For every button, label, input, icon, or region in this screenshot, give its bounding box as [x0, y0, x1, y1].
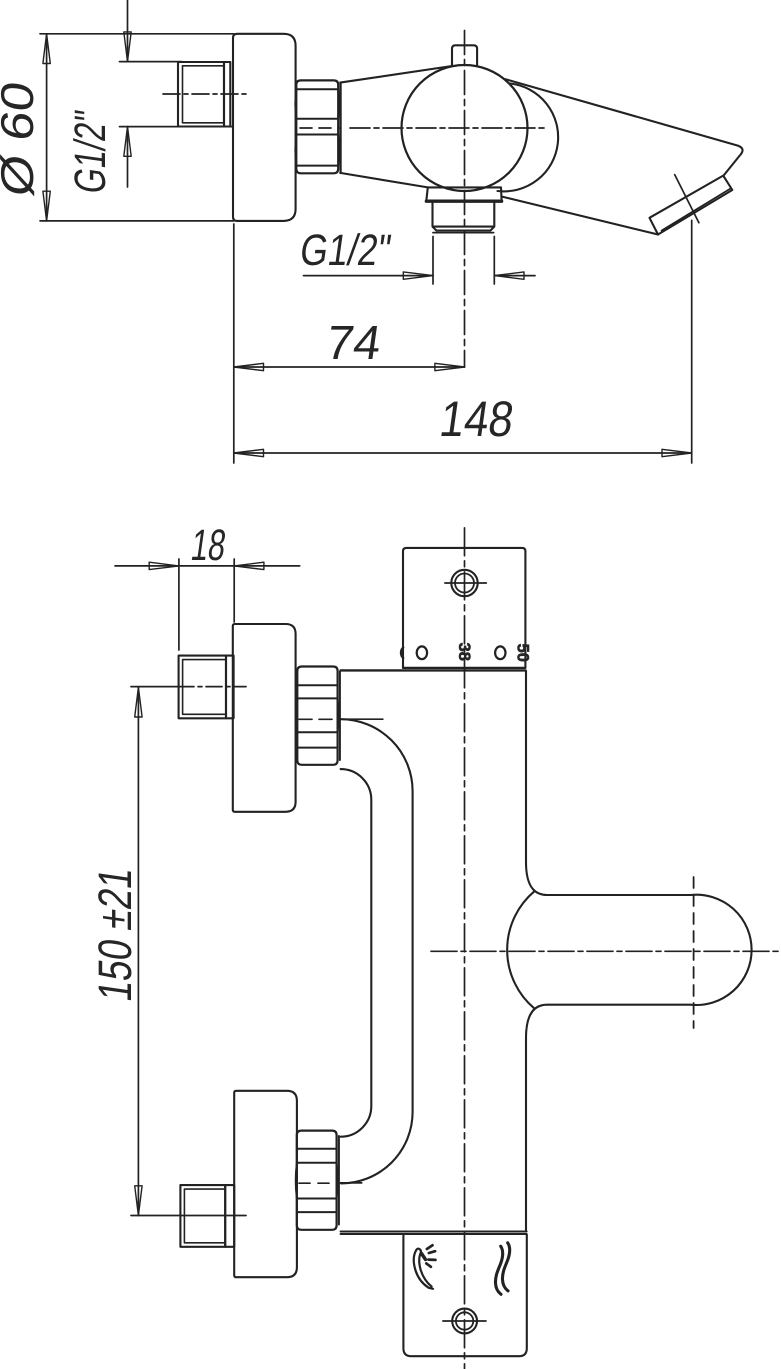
extension line G1/2 top [120, 61, 182, 63]
dimension line 18 [115, 565, 300, 567]
arrow 150 top [135, 687, 142, 717]
inlet fitting square (side view) [178, 62, 224, 127]
upper nut axis tick [341, 718, 383, 720]
svg-text:150 ±21: 150 ±21 [89, 864, 142, 1004]
hex nut band lines [296, 89, 338, 165]
extension line G1/2 outlet right [493, 237, 495, 285]
arrow Ø60 top [43, 34, 50, 64]
main vertical centerline [464, 528, 466, 1369]
valve cone top edge [340, 66, 452, 83]
upper nut facet bulges [296, 698, 339, 732]
svg-text:50: 50 [514, 644, 532, 662]
extension line 18 left [178, 559, 180, 650]
spout top edge [506, 79, 743, 175]
dimension line 150±21 [137, 687, 139, 1215]
handle screw inner circle [455, 574, 474, 593]
block screw outer circle [452, 1309, 477, 1334]
block screw inner circle [456, 1312, 473, 1329]
dimension line G1/2 vertical lower [127, 127, 129, 187]
centerline upper fitting axis [178, 686, 246, 688]
arrow 74 right [435, 363, 465, 370]
diverter block [403, 1235, 526, 1357]
control knob circle (side view) [402, 65, 528, 191]
extension line left (74/148) [233, 224, 235, 463]
fitting collar band [224, 62, 230, 127]
shower outlet flange [426, 187, 501, 200]
extension line 18 right [233, 559, 235, 622]
lower nut axis tick [340, 1182, 362, 1184]
dimension line 148 [234, 452, 692, 454]
bath steam icon wave 2 [502, 1243, 509, 1291]
arrow 18 right [234, 562, 264, 569]
svg-text:G1/2": G1/2" [297, 226, 394, 275]
knob skirt arc [507, 891, 534, 1008]
centerline valve axis horizontal [350, 127, 545, 129]
lower nut band lines [297, 1149, 337, 1212]
arrow G1/2 down [124, 32, 131, 62]
svg-text:38: 38 [455, 643, 473, 661]
body bottom edge double line [341, 1232, 527, 1235]
lower fitting collar band [225, 1185, 234, 1247]
knob hidden edge dashed [693, 877, 695, 1028]
wall escutcheon (side view) [233, 34, 296, 221]
connection hex nut (side view) [296, 80, 338, 173]
valve cone bottom edge [340, 173, 428, 188]
block screw cross line [443, 1320, 486, 1322]
lower nut axis dashes [299, 1182, 336, 1184]
arrow 150 bottom [135, 1186, 142, 1216]
extension line top (body top / Ø60) [40, 33, 234, 35]
valve axis dashes through nut [300, 127, 339, 129]
upper fitting collar band [226, 656, 234, 719]
svg-text:Ø 60: Ø 60 [0, 78, 43, 199]
centerline inlet fitting axis [163, 93, 248, 95]
shower outlet bottom edge [433, 232, 494, 234]
extension line G1/2 outlet left [432, 237, 434, 285]
upper inlet fitting square [179, 656, 226, 719]
knob axis centerline [431, 950, 781, 952]
extension line bottom (body bottom / Ø60) [40, 220, 234, 222]
arrow 148 right [662, 449, 692, 456]
pipe outer contour (S-union outer curves) [341, 769, 372, 1137]
aerator diagonal extension [675, 175, 699, 223]
extension line 150 upper [131, 686, 178, 688]
shower icon wand outer edge [414, 1251, 433, 1289]
lower fitting thread inner lines [184, 1189, 225, 1243]
spout wrap silhouette arc [498, 84, 559, 192]
aerator collar [650, 176, 733, 235]
shower icon wand inner edge [419, 1253, 431, 1287]
arrow 74 left [234, 363, 264, 370]
marking o left [417, 646, 427, 659]
aerator collar inner line [662, 188, 731, 230]
arrow G1/2 up [124, 127, 131, 157]
dimension line G1/2 vertical upper [127, 0, 129, 62]
centerline valve vertical [464, 31, 466, 368]
flange bottom thick line [426, 199, 501, 202]
shower icon head blob [422, 1254, 426, 1260]
inlet fitting thread inner lines [183, 66, 225, 123]
lower wall escutcheon [234, 1091, 297, 1277]
arrow G1/2 outlet right-pointing [403, 272, 433, 279]
shower outlet body [433, 203, 495, 231]
dimension line G1/2 outlet left part [304, 275, 434, 277]
arrow 148 left [234, 449, 264, 456]
dimension line Ø60 [46, 34, 48, 221]
extension line G1/2 bottom [120, 126, 234, 128]
temperature handle end cap [403, 548, 525, 668]
handle screw outer circle [451, 570, 477, 596]
body right edge with side knob neck [526, 671, 752, 1232]
arrow Ø60 bottom [43, 191, 50, 221]
upper fitting thread inner lines [183, 660, 226, 715]
upper nut washer band [339, 672, 341, 761]
shower icon wand top hook [416, 1249, 421, 1253]
body left contour (S-union inner curves) [341, 719, 413, 1183]
cone base edge [340, 83, 342, 173]
lower connection hex nut [297, 1131, 337, 1230]
hex nut facet bulges [295, 89, 339, 165]
shower icon spray lines [426, 1245, 435, 1267]
marking o right [495, 646, 505, 659]
arrow G1/2 outlet left-pointing [494, 272, 524, 279]
extension line 150 lower [131, 1215, 246, 1217]
handle screw cross line [445, 582, 486, 584]
extension line right (148 at spout tip) [691, 220, 693, 463]
body top edge double line [403, 667, 525, 669]
lower nut facet bulges [296, 1163, 338, 1199]
lower nut washer band [338, 1136, 340, 1225]
knob top button [452, 45, 477, 65]
svg-text:G1/2": G1/2" [66, 108, 115, 197]
spout bottom edge [502, 197, 659, 235]
arrow 18 left [149, 562, 179, 569]
bath steam icon wave 1 [495, 1246, 502, 1294]
upper nut axis dashes [299, 718, 338, 720]
upper wall escutcheon [233, 624, 296, 812]
svg-text:74: 74 [323, 316, 385, 370]
marking partial o left [401, 648, 403, 659]
dimension line G1/2 outlet right part [494, 275, 535, 277]
upper nut band lines [297, 685, 337, 747]
dimension line 74 [234, 366, 465, 368]
lower inlet fitting square [180, 1185, 225, 1247]
svg-text:148: 148 [436, 391, 517, 447]
upper connection hex nut [297, 667, 337, 765]
svg-text:18: 18 [188, 521, 229, 570]
